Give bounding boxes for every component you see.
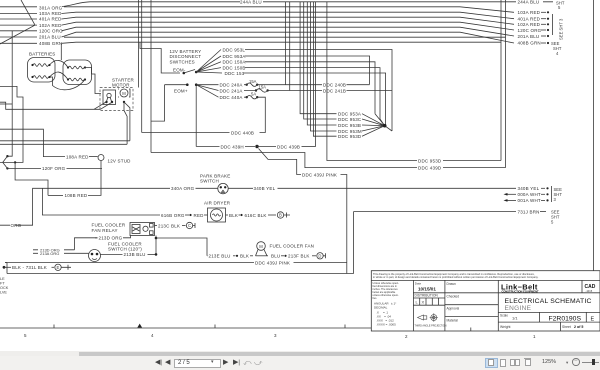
wire battery feeder from 408B xyxy=(60,44,62,61)
battery B1 cells row1 xyxy=(33,64,49,67)
svg-text:Material: Material xyxy=(447,318,459,322)
wire 240A to 240B xyxy=(257,84,322,86)
svg-text:213B BLU: 213B BLU xyxy=(124,252,146,257)
node under motor xyxy=(123,101,125,103)
third angle projection symbol xyxy=(418,313,439,321)
svg-text:DDC 439H: DDC 439H xyxy=(221,144,244,149)
svg-text:DDC 241B: DDC 241B xyxy=(323,88,346,93)
wire motor node legs xyxy=(124,102,130,144)
wire 120C ORG xyxy=(0,30,37,32)
sheet ref SEE SHT 3 lower xyxy=(551,186,553,202)
wire 102A RED xyxy=(0,24,37,26)
svg-text:301A ORG: 301A ORG xyxy=(39,5,63,10)
svg-text:340B YEL: 340B YEL xyxy=(518,186,540,191)
wire 953L run right xyxy=(245,50,392,132)
svg-text:SWITCH (120°): SWITCH (120°) xyxy=(108,247,142,252)
label 213C BLK xyxy=(155,225,158,227)
svg-text:THIRD ANGLE PROJECTION: THIRD ANGLE PROJECTION xyxy=(415,325,447,328)
svg-text:DDC 439D: DDC 439D xyxy=(418,166,442,171)
svg-text:E: E xyxy=(591,316,595,322)
wire 953M fan feeder xyxy=(311,2,337,131)
svg-text:Checked: Checked xyxy=(447,295,460,299)
wire 953D riser right xyxy=(500,0,502,161)
wire 244A BLU top bus xyxy=(62,2,553,7)
svg-text:B: B xyxy=(279,213,282,218)
svg-text:DDC 241A: DDC 241A xyxy=(220,88,243,93)
wire left edge feed to 108A RED xyxy=(0,129,44,156)
svg-text:M: M xyxy=(122,91,126,96)
wire elbow to junction xyxy=(7,154,12,157)
arrow to sheet3 xyxy=(541,11,546,13)
svg-text:ENGINE: ENGINE xyxy=(505,305,532,312)
svg-text:D: D xyxy=(318,254,321,259)
svg-text:2: 2 xyxy=(405,334,408,339)
svg-text:244A BLU: 244A BLU xyxy=(240,0,262,5)
svg-text:.XXXX = .0005: .XXXX = .0005 xyxy=(376,323,396,327)
svg-text:MOTOR: MOTOR xyxy=(112,83,130,88)
motor M2 circle xyxy=(257,242,266,251)
zone tick on title block xyxy=(470,328,472,332)
svg-text:1/1: 1/1 xyxy=(512,315,518,320)
wire 953C fan feeder xyxy=(304,2,337,119)
wire DDC 439J PINK lower xyxy=(5,262,254,264)
wire feeder to EOM- xyxy=(140,42,180,73)
terminal B xyxy=(277,212,283,218)
svg-text:DDC 953A: DDC 953A xyxy=(223,54,246,59)
svg-text:This drawing is the property o: This drawing is the property of Link-Bel… xyxy=(373,272,535,276)
wire left edge staircase to solenoid xyxy=(0,102,100,109)
svg-text:5: 5 xyxy=(24,333,27,338)
fuel cooler switch SW1 xyxy=(89,250,101,262)
switch S1 EOM- xyxy=(183,72,186,75)
layout icons xyxy=(485,358,498,368)
wire long bottom return xyxy=(7,273,354,275)
svg-text:DDC 439J PINK: DDC 439J PINK xyxy=(255,261,290,266)
battery B2 cells row2 xyxy=(69,78,85,81)
svg-text:108A RED: 108A RED xyxy=(66,154,89,159)
svg-text:616C BLK: 616C BLK xyxy=(245,213,267,218)
svg-text:DDC 439J PINK: DDC 439J PINK xyxy=(302,173,337,178)
relay K1 box xyxy=(130,223,155,236)
svg-text:12V STUD: 12V STUD xyxy=(108,159,132,164)
svg-text:108B RED: 108B RED xyxy=(65,193,88,198)
svg-text:BATTERIES: BATTERIES xyxy=(29,52,55,57)
wire stud down to 108B RED xyxy=(88,161,101,196)
wire 953A fan feeder xyxy=(300,2,336,114)
wire solenoid diagonal 1 xyxy=(94,102,106,109)
svg-text:CONSTRUCTION EQUIPMENT: CONSTRUCTION EQUIPMENT xyxy=(502,289,539,293)
wire 241A to 241B xyxy=(268,90,322,92)
battery B2 outline xyxy=(63,60,92,85)
svg-text:213A ORG: 213A ORG xyxy=(40,251,59,256)
svg-text:213F BLK: 213F BLK xyxy=(288,254,310,259)
wire bus extra L7 xyxy=(64,36,506,38)
svg-text:244A BLU: 244A BLU xyxy=(518,0,540,5)
wire 408B GRN xyxy=(0,42,37,44)
starter dashed enclosure xyxy=(100,88,133,111)
wire 151 run right xyxy=(243,73,386,126)
svg-text:LE: LE xyxy=(0,277,5,281)
svg-text:BLK: BLK xyxy=(240,254,249,259)
terminal E xyxy=(55,264,61,270)
wire 213E BLU line xyxy=(206,255,209,257)
fan converge wires xyxy=(362,114,392,137)
CAD box xyxy=(581,280,583,292)
svg-text:000A WHT: 000A WHT xyxy=(518,192,541,197)
horizontal scrollbar thumb xyxy=(0,351,600,356)
fan wires to DDC 240A/241A/440A xyxy=(196,85,218,98)
svg-text:731J BRN: 731J BRN xyxy=(518,209,540,214)
svg-text:120F ORG: 120F ORG xyxy=(42,166,66,171)
svg-text:2 of 5: 2 of 5 xyxy=(574,325,583,329)
svg-text:213E BLU: 213E BLU xyxy=(209,254,231,259)
svg-text:340B YEL: 340B YEL xyxy=(254,186,276,191)
wire 439B riser xyxy=(315,2,317,147)
wire vertical drop a xyxy=(284,2,286,85)
svg-text:BLU: BLU xyxy=(271,254,280,259)
svg-text:213D ORG: 213D ORG xyxy=(99,236,123,241)
wire 439J PINK feed xyxy=(259,149,302,175)
svg-text:5A: 5A xyxy=(251,91,256,96)
12V stud terminal xyxy=(98,155,104,161)
svg-text:EOM+: EOM+ xyxy=(174,88,188,93)
svg-text:ELECTRICAL SCHEMATIC: ELECTRICAL SCHEMATIC xyxy=(505,298,592,305)
wire 953B fan feeder xyxy=(307,2,336,125)
wire 108A RED xyxy=(44,156,65,158)
svg-text:X: X xyxy=(422,300,425,305)
title xyxy=(498,311,600,313)
starter top feeders xyxy=(138,0,140,88)
svg-text:4: 4 xyxy=(151,333,154,338)
node dot xyxy=(383,124,387,128)
svg-text:C: C xyxy=(188,223,191,228)
label 213B BLU xyxy=(101,253,123,255)
junction fan left edge xyxy=(6,155,8,157)
wire battery link row2 xyxy=(50,72,69,79)
fan wires to DDC 953L/953A/150A/150B/151 xyxy=(196,50,222,74)
svg-text:SWITCHES: SWITCHES xyxy=(170,59,195,64)
zoom xyxy=(542,359,556,365)
svg-text:120C ORG: 120C ORG xyxy=(39,29,63,34)
svg-text:10/15/01: 10/15/01 xyxy=(418,287,436,292)
wires motor legs xyxy=(256,250,268,256)
wire ORG from left edge up-over xyxy=(0,188,170,225)
wire relay output down xyxy=(155,236,157,255)
svg-text:FAN RELAY: FAN RELAY xyxy=(92,228,118,233)
wire 301A ORG xyxy=(0,6,37,8)
svg-text:LVE: LVE xyxy=(0,291,7,295)
svg-text:DISTRIBUTION: DISTRIBUTION xyxy=(415,294,439,298)
wire 401A RED xyxy=(0,18,37,20)
svg-text:RED: RED xyxy=(194,213,205,218)
node J1 xyxy=(255,145,258,148)
svg-text:1: 1 xyxy=(533,334,536,339)
drawn/checked/approval/material column xyxy=(497,280,499,331)
svg-text:FT: FT xyxy=(0,282,5,286)
wire 731J BRN xyxy=(354,212,516,274)
svg-text:Sheet: Sheet xyxy=(562,325,571,329)
svg-text:201A BLU: 201A BLU xyxy=(518,34,540,39)
date / distribution column xyxy=(444,280,446,331)
wire solenoid diagonal 2 xyxy=(100,102,112,109)
svg-text:FUEL COOLER FAN: FUEL COOLER FAN xyxy=(270,243,315,248)
svg-text:401A RED: 401A RED xyxy=(39,17,62,22)
svg-text:401A RED: 401A RED xyxy=(518,17,541,22)
wire 103A RED xyxy=(0,13,37,15)
wire 340B YEL xyxy=(228,187,253,189)
wire 150B run right xyxy=(245,68,380,119)
svg-text:DDC 440A: DDC 440A xyxy=(220,95,243,100)
wire battery bottom loop xyxy=(50,77,86,90)
wire junction to 108B xyxy=(15,162,48,195)
svg-text:616B ORG: 616B ORG xyxy=(161,213,185,218)
svg-text:Date: Date xyxy=(415,282,422,286)
wire 616B ORG xyxy=(42,188,160,215)
wire feeder EOM+ xyxy=(151,85,187,121)
svg-text:DDC 953D: DDC 953D xyxy=(418,158,442,163)
wire left edge stub into drop xyxy=(0,103,12,105)
svg-text:SEE SHT 3: SEE SHT 3 xyxy=(559,18,564,40)
wire 439D riser right xyxy=(505,0,507,168)
svg-text:201A BLU: 201A BLU xyxy=(39,35,61,40)
svg-text:fies.: fies. xyxy=(373,297,378,300)
svg-text:DDC 150B: DDC 150B xyxy=(223,65,246,70)
wire battery series link top xyxy=(50,60,69,67)
svg-text:DDC 240A: DDC 240A xyxy=(220,83,243,88)
wire left edge staircase to junction xyxy=(0,86,23,162)
svg-text:BLK: BLK xyxy=(229,213,238,218)
wire battery B2 to starter xyxy=(85,68,101,94)
wire BLK 731L BLK xyxy=(3,266,6,269)
svg-text:408B GRN: 408B GRN xyxy=(518,41,541,46)
wire bus L1 103A RED xyxy=(64,6,460,8)
svg-text:SWITCH: SWITCH xyxy=(200,179,219,184)
wire 953D lower riser xyxy=(327,2,417,161)
svg-text:DDC 953B: DDC 953B xyxy=(338,123,361,128)
terminal C xyxy=(186,222,192,228)
wire horizontals to starter area xyxy=(0,140,130,142)
solenoid contact symbol xyxy=(107,93,111,97)
tolerance column xyxy=(412,280,414,331)
svg-text:DECIMAL: DECIMAL xyxy=(374,306,388,310)
air dryer box xyxy=(208,208,226,222)
wire to fan line xyxy=(156,238,207,256)
wire DDC 439H xyxy=(196,146,219,148)
logo row xyxy=(498,292,600,294)
svg-text:Scale: Scale xyxy=(500,314,508,318)
svg-text:102A RED: 102A RED xyxy=(518,22,541,27)
svg-text:Drawn: Drawn xyxy=(447,282,456,286)
wire diagonal top-left upper xyxy=(0,0,35,44)
label BLK xyxy=(226,214,229,216)
svg-text:001A WHT: 001A WHT xyxy=(518,198,541,203)
battery B2 cells row1 xyxy=(69,66,85,69)
svg-text:408B GRN: 408B GRN xyxy=(39,41,62,46)
wire 953A run right xyxy=(245,56,370,84)
svg-text:103A RED: 103A RED xyxy=(518,10,541,15)
svg-text:DDC 440B: DDC 440B xyxy=(231,130,254,135)
wire 150A run right xyxy=(245,62,375,114)
wire 439D feed jog xyxy=(151,153,417,168)
svg-text:DDC 953D: DDC 953D xyxy=(338,134,362,139)
wire 000A WHT xyxy=(507,193,516,195)
wire 120F ORG xyxy=(7,167,41,169)
wire 001A WHT xyxy=(507,199,516,201)
svg-text:F2R0190S: F2R0190S xyxy=(549,315,582,322)
svg-text:in whole or in part, of design: in whole or in part, of design and detai… xyxy=(373,275,539,279)
wire 440A down to DDC 440B xyxy=(257,97,265,132)
nav controls xyxy=(155,358,162,366)
svg-text:213C BLK: 213C BLK xyxy=(158,223,180,228)
svg-text:DDC 953A: DDC 953A xyxy=(338,112,361,117)
solenoid box xyxy=(103,90,116,105)
wire 201A BLU xyxy=(0,36,37,38)
svg-text:340A ORG: 340A ORG xyxy=(171,186,195,191)
svg-text:DDC 953L: DDC 953L xyxy=(223,47,246,52)
svg-text:-1015: -1015 xyxy=(586,289,593,293)
right border xyxy=(593,0,595,331)
svg-text:E: E xyxy=(57,265,60,270)
svg-text:102A RED: 102A RED xyxy=(39,23,62,28)
wire 213D ORG link down xyxy=(75,238,98,250)
wire vertical drop b xyxy=(289,2,291,91)
motor M circle xyxy=(120,89,128,97)
battery B1 cells row2 xyxy=(33,76,49,79)
notice text xyxy=(371,279,600,281)
svg-text:DDC 151: DDC 151 xyxy=(225,71,245,76)
svg-text:DDC 240B: DDC 240B xyxy=(323,83,346,88)
svg-text:ORG: ORG xyxy=(11,223,22,228)
svg-text:BLK - 731L BLK: BLK - 731L BLK xyxy=(12,265,47,270)
svg-text:EOM-: EOM- xyxy=(173,67,186,72)
wire vertical from 120C ORG down xyxy=(11,31,13,154)
bottom border xyxy=(0,327,371,329)
svg-text:DDC 953C: DDC 953C xyxy=(338,117,362,122)
battery B1 outline xyxy=(28,58,56,83)
wire 953D fan feeder xyxy=(313,2,336,136)
svg-text:AIR DRYER: AIR DRYER xyxy=(204,201,231,206)
svg-text:Weight: Weight xyxy=(500,325,511,329)
svg-text:103A RED: 103A RED xyxy=(39,11,62,16)
svg-text:OCK: OCK xyxy=(0,286,9,290)
svg-text:M: M xyxy=(259,244,263,249)
revision triangle xyxy=(137,324,142,328)
switch S2 EOM+ xyxy=(186,83,189,86)
svg-text:DDC 439B: DDC 439B xyxy=(277,144,300,149)
zone ticks xyxy=(53,325,55,329)
scale row xyxy=(498,321,600,323)
svg-text:DDC 150A: DDC 150A xyxy=(223,60,246,65)
svg-text:Approval: Approval xyxy=(447,307,460,311)
wire left edge riser xyxy=(5,263,7,274)
wire EOM+ vertex drop to 439H xyxy=(195,85,197,147)
svg-text:120C ORG: 120C ORG xyxy=(518,28,542,33)
svg-text:3: 3 xyxy=(274,333,277,338)
sheet ref bracket SEE SHT 3 xyxy=(552,14,554,35)
terminal D xyxy=(317,253,323,259)
